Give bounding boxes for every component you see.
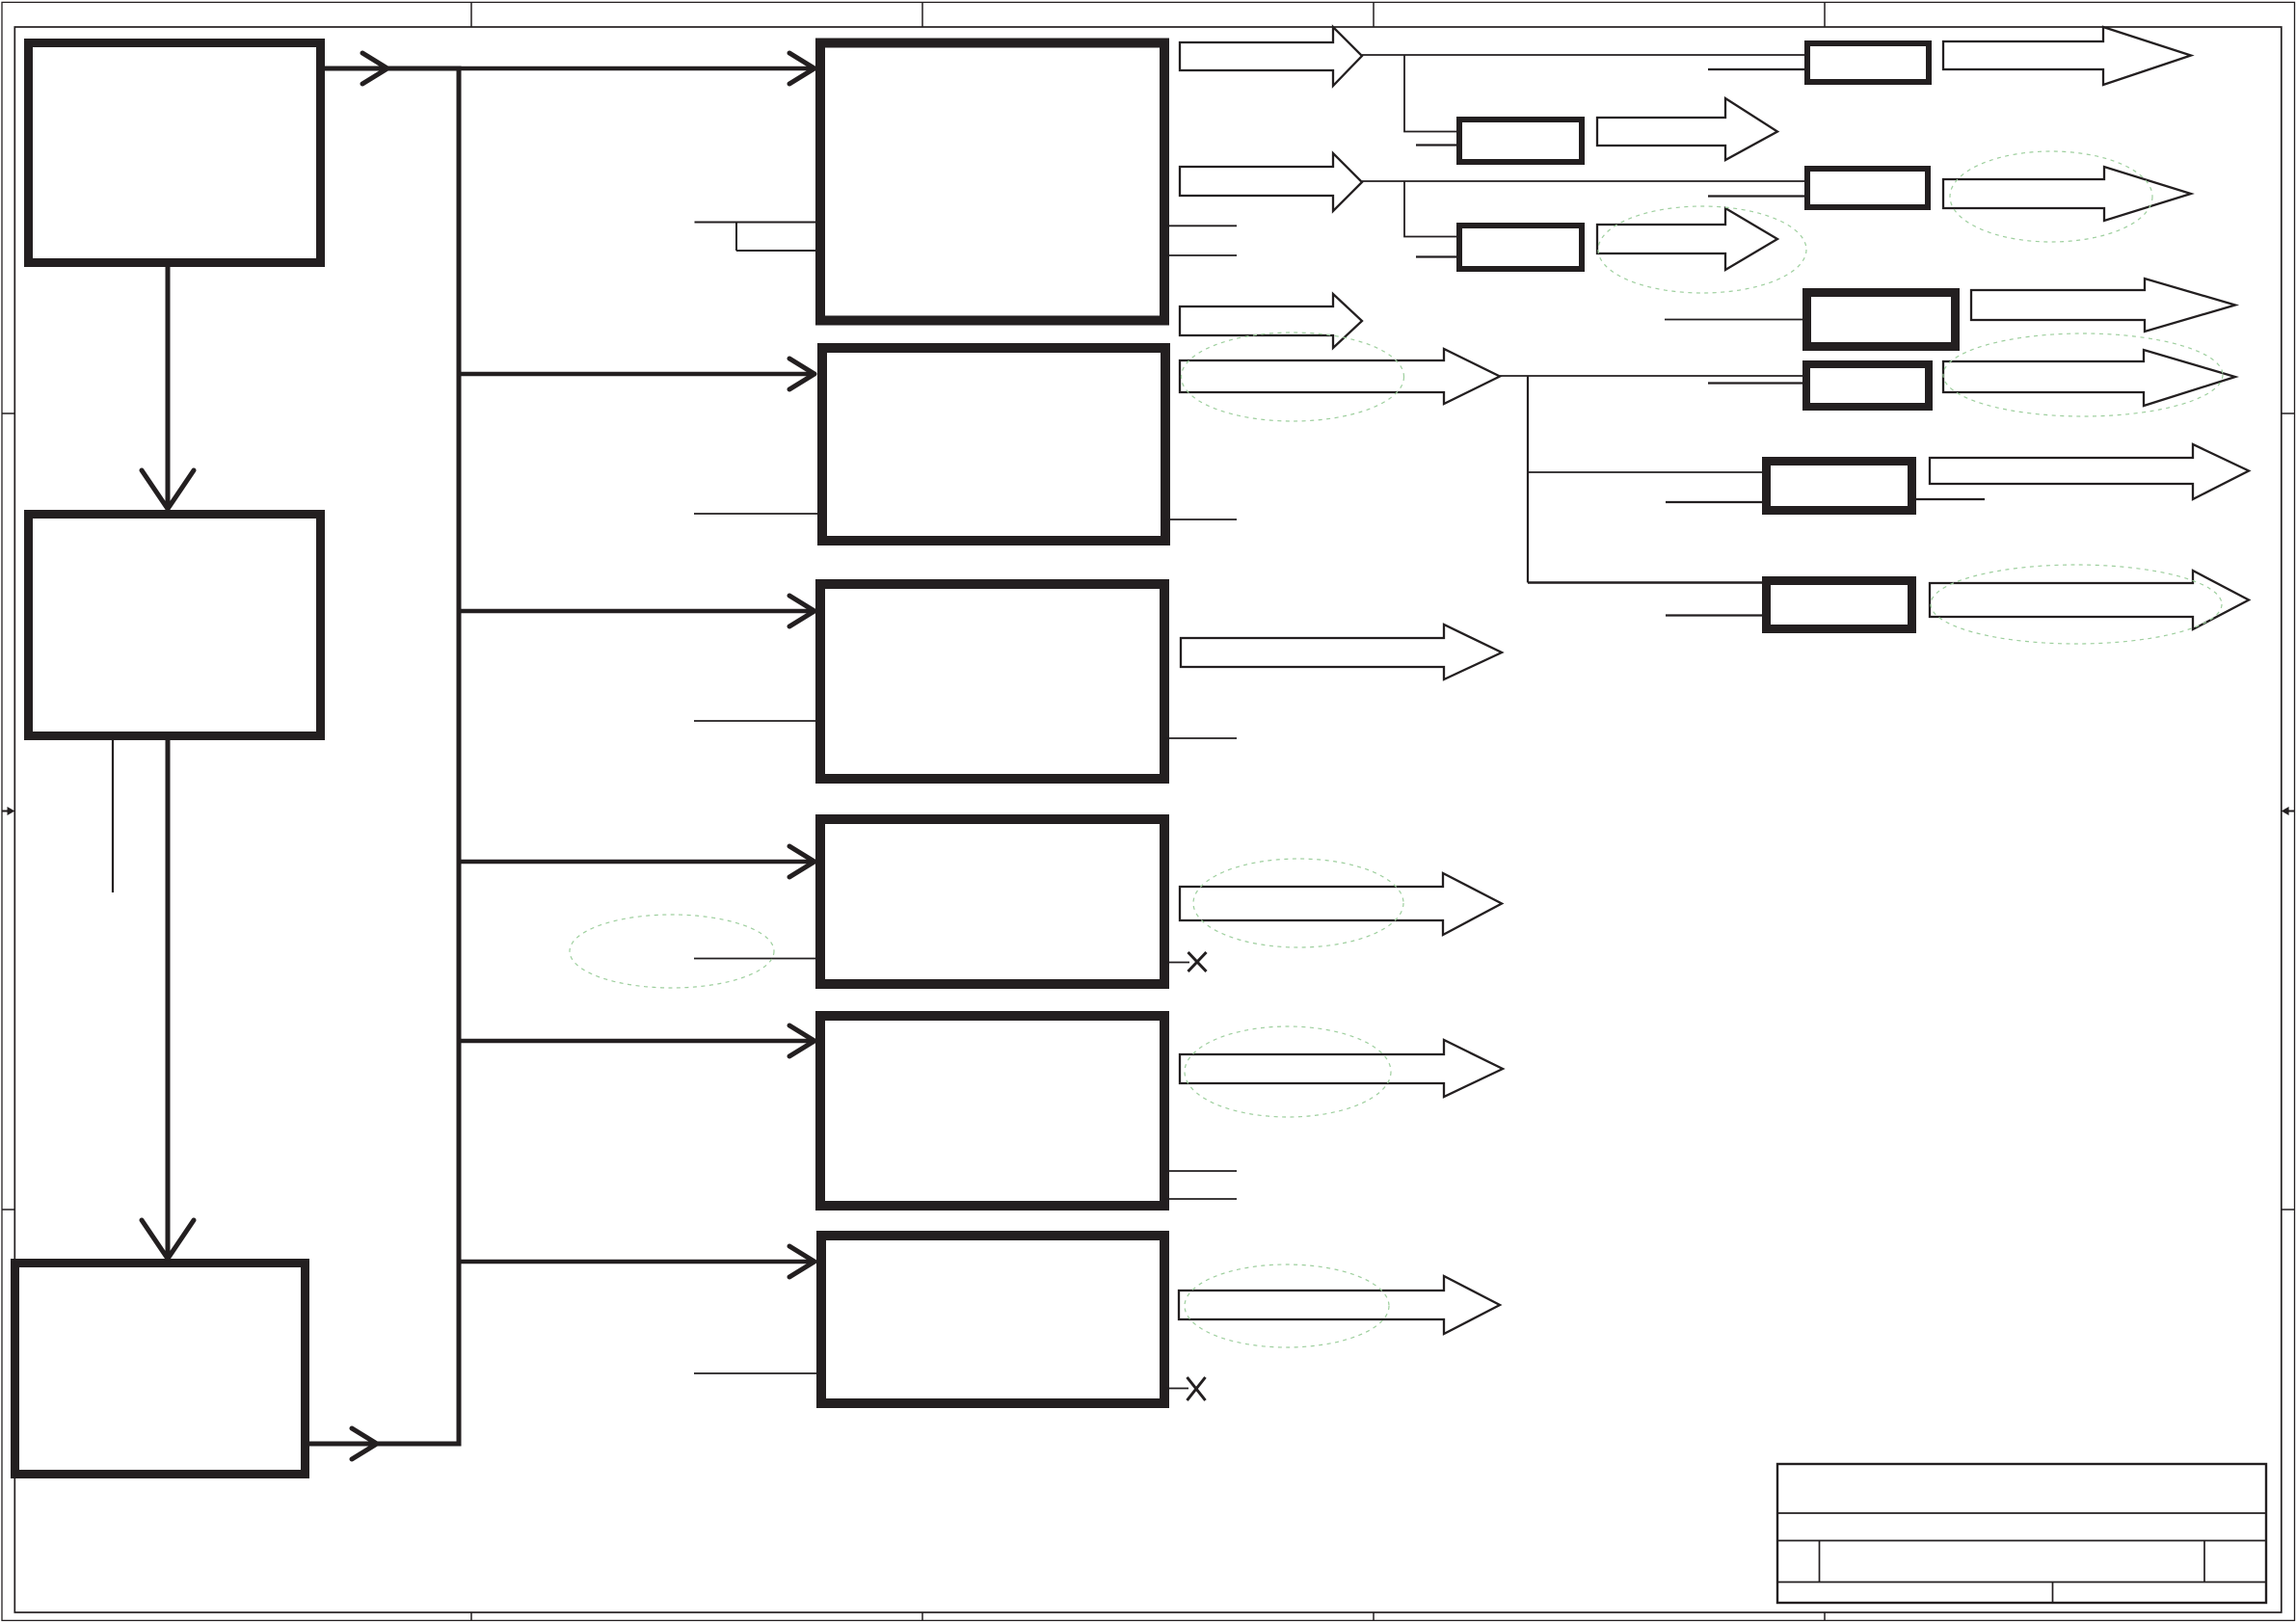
stub to X mark at box4 <box>1164 962 1189 964</box>
title block outer <box>1777 1464 2266 1603</box>
title block row line 1 <box>1777 1512 2266 1514</box>
stub right of fuse R7 <box>1916 498 1985 500</box>
outline arrow after fuse R8 <box>1930 571 2249 629</box>
highlight ellipse on box5 output <box>1185 1026 1391 1117</box>
title block divider c <box>2052 1583 2054 1604</box>
wire row1 main line <box>1362 54 1807 56</box>
block box5 (center column) <box>820 1016 1164 1206</box>
arrowhead on box A output <box>362 53 387 84</box>
highlight ellipse on box6 output <box>1185 1264 1389 1347</box>
frame tick top x1893 <box>1824 2 1826 27</box>
outline arrow box1 output row2 <box>1180 153 1362 211</box>
frame tick top x957 <box>921 2 923 27</box>
outline arrow after fuse R4 <box>1597 208 1777 270</box>
stub below fuse R7 <box>1666 501 1766 503</box>
stub line into box3 left edge <box>694 720 820 722</box>
stub line out of box1 right edge (box1 lower) <box>1164 254 1237 256</box>
highlight ellipse on row R8 arrow <box>1931 565 2222 644</box>
fuse R4 <box>1459 226 1582 269</box>
frame center mark left <box>2 807 14 815</box>
arrowhead into box4 <box>789 846 814 877</box>
frame tick bottom x489 <box>470 1612 472 1620</box>
outline arrow box6 output <box>1179 1276 1500 1334</box>
wire bus branch to box1 <box>459 67 814 71</box>
stub to X mark at box6 <box>1164 1388 1188 1390</box>
wire bus branch to box6 <box>459 1260 814 1264</box>
outline arrow box1 output row1 <box>1180 27 1362 86</box>
wire row2 drop to fuse R4 <box>1404 181 1459 237</box>
X mark box4 <box>1188 952 1207 971</box>
fuse R3 <box>1807 169 1928 207</box>
block box6 (center column) <box>821 1236 1164 1403</box>
fuse R1 <box>1807 43 1929 82</box>
highlight ellipse on box2 output <box>1182 333 1404 421</box>
block box C (bottom-left) <box>15 1264 306 1475</box>
arrowhead into box6 <box>789 1246 814 1277</box>
block box3 (center column) <box>820 584 1164 779</box>
stub line into box4 left edge <box>694 958 820 960</box>
highlight ellipse on row R6 arrow <box>1943 333 2223 416</box>
stub line out of box5 right edge (box5 lower) <box>1164 1198 1237 1200</box>
stub below fuse R2 <box>1416 144 1459 146</box>
title block divider a <box>1819 1541 1821 1583</box>
outline arrow after fuse R5 <box>1971 279 2235 332</box>
arrowhead into box5 <box>789 1025 814 1056</box>
X mark box6 <box>1188 1377 1206 1400</box>
wire bus branch to box3 <box>459 609 814 614</box>
block box B (middle-left) <box>29 515 321 736</box>
stub into fuse R5 <box>1665 319 1806 321</box>
stub line out of box1 right edge (box1 upper) <box>1164 225 1237 226</box>
frame tick bottom x1893 <box>1824 1612 1826 1620</box>
fuse R8 <box>1767 581 1912 629</box>
stub into fuse R3 <box>1708 195 1807 197</box>
wire arrow box B to box C <box>142 740 194 1259</box>
highlight ellipse on row2b arrow <box>1598 206 1806 293</box>
wire box C output to bus <box>309 1442 461 1447</box>
outline arrow after fuse R6 <box>1943 350 2235 406</box>
block box A (top-left) <box>29 43 321 263</box>
frame tick right y429 <box>2282 412 2295 414</box>
outline arrow box5 output <box>1180 1040 1503 1097</box>
outline arrow box4 output <box>1180 873 1502 935</box>
highlight ellipse on row2 arrow <box>1950 151 2152 242</box>
wire box A output to bus <box>325 67 459 71</box>
bus vertical <box>457 67 462 1447</box>
outline arrow after fuse R3 <box>1943 167 2191 221</box>
stub line out of box3 right edge (box3) <box>1164 737 1237 739</box>
stub line out of box2 right edge (box2) <box>1164 519 1237 520</box>
wire bus branch to box4 <box>459 860 814 865</box>
stub into fuse R6 <box>1708 382 1806 384</box>
stub into fuse R1 <box>1708 68 1807 70</box>
step stub into box1 left edge lower <box>736 250 820 252</box>
title block divider b <box>2203 1541 2205 1583</box>
block box1 (center column) <box>820 43 1164 321</box>
fuse R2 <box>1459 120 1582 162</box>
wire branch to fuse R7 <box>1528 471 1766 473</box>
arrowhead into box1 <box>789 53 814 84</box>
fuse R6 <box>1806 364 1929 407</box>
frame tick top x1425 <box>1373 2 1375 27</box>
wire row2 main line <box>1362 180 1807 182</box>
wire stub below box B <box>112 740 114 892</box>
outline arrow box3 output <box>1181 625 1502 679</box>
block box4 (center column) <box>820 819 1164 984</box>
step stub into box1 left edge upper <box>695 222 821 224</box>
step stub vertical jog <box>735 223 737 252</box>
highlight ellipse on box4 output <box>1193 859 1403 947</box>
stub below fuse R4 <box>1416 255 1459 257</box>
arrowhead into box2 <box>789 359 814 389</box>
wire arrow box A to box B <box>142 267 194 509</box>
stub line into box2 left edge <box>694 513 820 515</box>
title block row line 2 <box>1777 1540 2266 1542</box>
wire branch to fuse R8 <box>1528 581 1766 584</box>
wire vertical drop from box2-output line <box>1527 376 1529 583</box>
stub line into box6 left edge <box>694 1372 820 1374</box>
stub line out of box5 right edge (box5 upper) <box>1164 1170 1237 1172</box>
frame tick top x489 <box>470 2 472 27</box>
frame center mark right <box>2282 807 2295 815</box>
wire row1 drop to fuse R2 <box>1404 55 1459 132</box>
highlight ellipse on box4 stub <box>570 915 774 988</box>
outline arrow after fuse R7 <box>1930 444 2249 499</box>
title block row line 3 <box>1777 1582 2266 1583</box>
fuse R5 <box>1807 293 1956 347</box>
stub below fuse R8 <box>1666 614 1766 616</box>
outline arrow box1 output row3 <box>1180 294 1362 348</box>
frame tick right y1255 <box>2282 1209 2295 1211</box>
outline arrow box2 output <box>1180 349 1500 404</box>
frame tick left y429 <box>2 412 14 414</box>
wire bus branch to box2 <box>459 372 814 377</box>
frame tick bottom x957 <box>921 1612 923 1620</box>
outline arrow after fuse R2 <box>1597 98 1777 160</box>
fuse R7 <box>1767 462 1912 511</box>
wire box2-output tip to fuse R6 <box>1500 375 1806 377</box>
frame tick left y1255 <box>2 1209 14 1211</box>
frame tick bottom x1425 <box>1373 1612 1375 1620</box>
outline arrow after fuse R1 <box>1943 27 2191 85</box>
arrowhead into box3 <box>789 596 814 626</box>
arrowhead on box C output <box>352 1428 377 1459</box>
wire bus branch to box5 <box>459 1039 814 1044</box>
block box2 (center column) <box>822 348 1165 541</box>
